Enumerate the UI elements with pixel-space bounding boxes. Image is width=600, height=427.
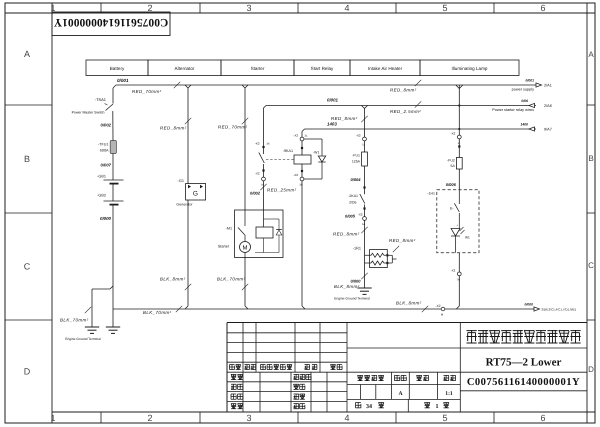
contact 2KA1 (2/D5) — [348, 166, 365, 217]
svg-text:6: 6 — [540, 413, 545, 423]
svg-text:BLK_70mm²: BLK_70mm² — [143, 310, 172, 315]
svg-text:BLK_8mm²: BLK_8mm² — [160, 277, 186, 282]
terminal X2 (solenoid feed) — [261, 177, 265, 210]
svg-text:RT75—2 Lower: RT75—2 Lower — [486, 357, 562, 369]
svg-text:2: 2 — [147, 3, 152, 13]
off-page connector 2/A1 power supply — [512, 79, 552, 92]
svg-text:A: A — [24, 49, 30, 59]
svg-text:3: 3 — [246, 3, 251, 13]
svg-text:Intake Air Heater: Intake Air Heater — [368, 66, 403, 71]
function box Start Relay — [294, 60, 350, 76]
terminal X2 (relay top) — [293, 134, 308, 156]
power master switch TSA1 — [72, 88, 113, 141]
svg-text:-TSA1: -TSA1 — [95, 97, 107, 102]
svg-text:0/001: 0/001 — [327, 98, 339, 103]
svg-text:-X2: -X2 — [356, 134, 361, 138]
mechanical link (dashed) — [266, 159, 294, 161]
svg-text:34: 34 — [366, 404, 372, 410]
svg-text:A: A — [398, 391, 402, 397]
svg-text:-9KA1: -9KA1 — [283, 149, 293, 153]
node 0/000 (heater ground) — [334, 273, 368, 289]
svg-text:RED_8mm²: RED_8mm² — [390, 88, 417, 93]
svg-text:0/000: 0/000 — [100, 216, 112, 221]
svg-text:-1H1: -1H1 — [427, 192, 435, 196]
svg-text:-1R1: -1R1 — [353, 247, 361, 251]
fuse FU1 125A — [352, 152, 368, 166]
svg-text:C: C — [24, 262, 31, 272]
wire label RED_25mm2 — [260, 184, 296, 193]
svg-text:9/A7: 9/A7 — [544, 128, 552, 132]
terminal X2 (lamp top) — [451, 132, 462, 158]
svg-text:1: 1 — [50, 413, 55, 423]
svg-text:0/007: 0/007 — [101, 163, 112, 168]
wire bus 0/001 (starter relay feed) — [264, 98, 537, 114]
wire — [333, 220, 368, 288]
svg-text:RED_2.5mm²: RED_2.5mm² — [390, 109, 421, 114]
lamp unit 1H1 (dashed enclosure) — [437, 190, 479, 253]
function box Illuminating Lamp — [420, 60, 519, 76]
svg-text:0/000: 0/000 — [525, 303, 534, 307]
wire lamp drop — [456, 85, 463, 135]
wire to grounds — [92, 205, 113, 327]
svg-text:6: 6 — [540, 3, 545, 13]
svg-text:-X2: -X2 — [451, 269, 456, 273]
svg-text:-FU2: -FU2 — [447, 159, 455, 163]
fuse TFU1 500A — [98, 141, 116, 154]
svg-text:C: C — [588, 261, 594, 270]
terminal X2 on ground bus — [436, 304, 445, 317]
svg-text:Generator: Generator — [176, 202, 193, 206]
svg-text:0/000: 0/000 — [350, 279, 361, 284]
svg-text:-FU1: -FU1 — [352, 154, 360, 158]
terminal X2 (lamp bottom) — [451, 253, 462, 282]
wire to ground bus — [160, 200, 191, 309]
terminal X2 (relay bottom) — [293, 164, 304, 187]
svg-text:RED_70mm²: RED_70mm² — [218, 125, 248, 130]
svg-text:1: 1 — [50, 3, 55, 13]
title block — [227, 323, 587, 413]
starter M1 — [218, 210, 283, 258]
node 0/006 — [446, 169, 460, 190]
svg-text:RED_70mm²: RED_70mm² — [132, 89, 162, 94]
wire heater feed drop — [331, 106, 368, 138]
svg-text:2/A1: 2/A1 — [544, 84, 552, 88]
svg-text:5A: 5A — [451, 164, 456, 168]
wire — [112, 184, 114, 201]
revision header row — [230, 365, 343, 370]
svg-text:B: B — [588, 154, 593, 163]
wire lamp to ground bus — [456, 276, 459, 309]
off-page connector ground references — [525, 303, 577, 312]
svg-text:0/004: 0/004 — [350, 177, 361, 182]
wire bus 1403 — [302, 122, 536, 138]
svg-text:BLK_70mm²: BLK_70mm² — [60, 318, 89, 323]
wire — [112, 154, 114, 181]
company name — [467, 330, 581, 343]
svg-text:-X2: -X2 — [293, 173, 298, 177]
svg-text:RED_8mm²: RED_8mm² — [331, 116, 358, 121]
svg-text:RED_25mm²: RED_25mm² — [267, 188, 297, 193]
svg-text:BLK_70mm²: BLK_70mm² — [217, 277, 246, 282]
ground (engine ground terminal, heater) — [334, 288, 371, 301]
function box Intake Air Heater — [350, 60, 420, 76]
ground (engine ground terminal, left) — [60, 307, 101, 341]
svg-text:-TFU1: -TFU1 — [98, 143, 108, 147]
svg-text:Engine Ground Terminal: Engine Ground Terminal — [65, 337, 101, 341]
svg-text:500A: 500A — [100, 149, 109, 153]
svg-text:0/002: 0/002 — [101, 123, 112, 128]
svg-text:-X2: -X2 — [451, 132, 456, 136]
heater 1R1 — [353, 238, 416, 268]
svg-text:2/D5: 2/D5 — [349, 201, 356, 205]
svg-text:-W1: -W1 — [313, 151, 319, 155]
svg-text:Start Relay: Start Relay — [311, 66, 334, 71]
svg-text:0/001: 0/001 — [526, 79, 535, 83]
svg-text:2/A6: 2/A6 — [544, 104, 552, 108]
signature rows — [231, 374, 311, 408]
svg-text:1: 1 — [436, 404, 439, 410]
battery GB2 — [97, 194, 123, 205]
function box Battery — [86, 60, 148, 76]
svg-text:0/006: 0/006 — [446, 182, 457, 187]
wire starter main drop — [218, 85, 248, 210]
drawing number stamp (rotated) — [52, 12, 170, 36]
svg-text:Starter: Starter — [218, 245, 230, 249]
svg-text:1400: 1400 — [520, 122, 528, 126]
node 0/004 — [350, 177, 365, 189]
off-page connector 9/A7 — [520, 122, 551, 131]
svg-text:power supply: power supply — [512, 88, 534, 92]
battery GB1 — [97, 175, 123, 184]
ground (battery negative) — [106, 326, 120, 328]
svg-text:-: - — [457, 241, 458, 244]
node 0/005 terminal X2 — [345, 213, 366, 227]
svg-text:Battery: Battery — [110, 66, 125, 71]
function box Alternator — [148, 60, 221, 76]
svg-text:-K2: -K2 — [255, 142, 260, 146]
svg-text:B: B — [24, 154, 30, 164]
svg-text:Alternator: Alternator — [175, 66, 195, 71]
svg-text:1403: 1403 — [327, 122, 337, 127]
svg-text:Illuminating Lamp: Illuminating Lamp — [451, 66, 487, 71]
wire alternator drop — [160, 85, 191, 184]
svg-text:125A: 125A — [352, 160, 361, 164]
svg-text:3: 3 — [246, 413, 251, 423]
svg-text:2/B6,3/C1,4/C1,7/D1,9/B1: 2/B6,3/C1,4/C1,7/D1,9/B1 — [542, 307, 577, 311]
terminal X2 (heater top) — [356, 134, 367, 153]
svg-text:-X2: -X2 — [255, 172, 260, 176]
svg-text:-X2: -X2 — [436, 304, 441, 308]
function box Starter — [221, 60, 294, 76]
svg-text:-X2: -X2 — [293, 134, 298, 138]
svg-text:D: D — [24, 367, 31, 377]
svg-text:-G1: -G1 — [178, 179, 184, 183]
svg-text:5: 5 — [442, 413, 447, 423]
svg-text:BLK_8mm²: BLK_8mm² — [396, 301, 422, 306]
svg-text:4: 4 — [344, 413, 349, 423]
svg-text:G: G — [193, 191, 198, 198]
svg-text:M: M — [243, 245, 248, 252]
svg-text:W1: W1 — [465, 236, 470, 240]
diode W1 — [304, 139, 326, 179]
wire bus 0/001 (battery positive) — [113, 78, 536, 94]
svg-text:BLK_8mm²: BLK_8mm² — [334, 284, 360, 289]
lamp W1 (LED symbol) — [451, 224, 470, 253]
contact K2 (start relay contact) — [255, 108, 270, 177]
svg-text:1:1: 1:1 — [445, 391, 453, 397]
svg-text:-M1: -M1 — [226, 227, 232, 231]
svg-text:RED_8mm²: RED_8mm² — [333, 232, 360, 237]
svg-text:5: 5 — [442, 3, 447, 13]
svg-text:4: 4 — [344, 3, 349, 13]
svg-text:0/005: 0/005 — [345, 214, 356, 219]
svg-text:C00756116140000001Y: C00756116140000001Y — [53, 16, 168, 28]
svg-text:RED_8mm²: RED_8mm² — [160, 126, 187, 131]
scale header row — [356, 375, 456, 410]
svg-text:Engine Ground Terminal: Engine Ground Terminal — [334, 297, 370, 301]
svg-text:2: 2 — [147, 413, 152, 423]
svg-text:Starter: Starter — [251, 66, 265, 71]
svg-text:-GB2: -GB2 — [97, 194, 106, 198]
wire starter to ground bus — [217, 258, 248, 310]
lamp switch — [450, 190, 459, 229]
svg-text:0/002: 0/002 — [250, 191, 261, 196]
wire relay to ground bus — [302, 181, 305, 309]
fuse FU2 5A — [447, 158, 462, 170]
svg-text:Power Master Switch: Power Master Switch — [72, 111, 105, 115]
relay coil 9KA1 — [283, 149, 311, 164]
svg-text:0/001: 0/001 — [117, 78, 129, 83]
svg-text:-GB1: -GB1 — [97, 175, 106, 179]
svg-text:-X2: -X2 — [358, 213, 363, 217]
svg-text:A: A — [588, 50, 594, 59]
svg-text:D: D — [588, 365, 594, 374]
ground wire bus 0/000 — [113, 301, 534, 316]
svg-text:-2KA1: -2KA1 — [348, 194, 358, 198]
svg-text:0/06: 0/06 — [521, 99, 528, 103]
off-page connector 2/A6 power starter relay wires — [492, 99, 552, 112]
generator G1 — [176, 179, 205, 206]
svg-text:RED_8mm²: RED_8mm² — [389, 238, 416, 243]
svg-text:Power starter relay wires: Power starter relay wires — [492, 108, 534, 112]
svg-text:C00756116140000001Y: C00756116140000001Y — [467, 377, 580, 388]
